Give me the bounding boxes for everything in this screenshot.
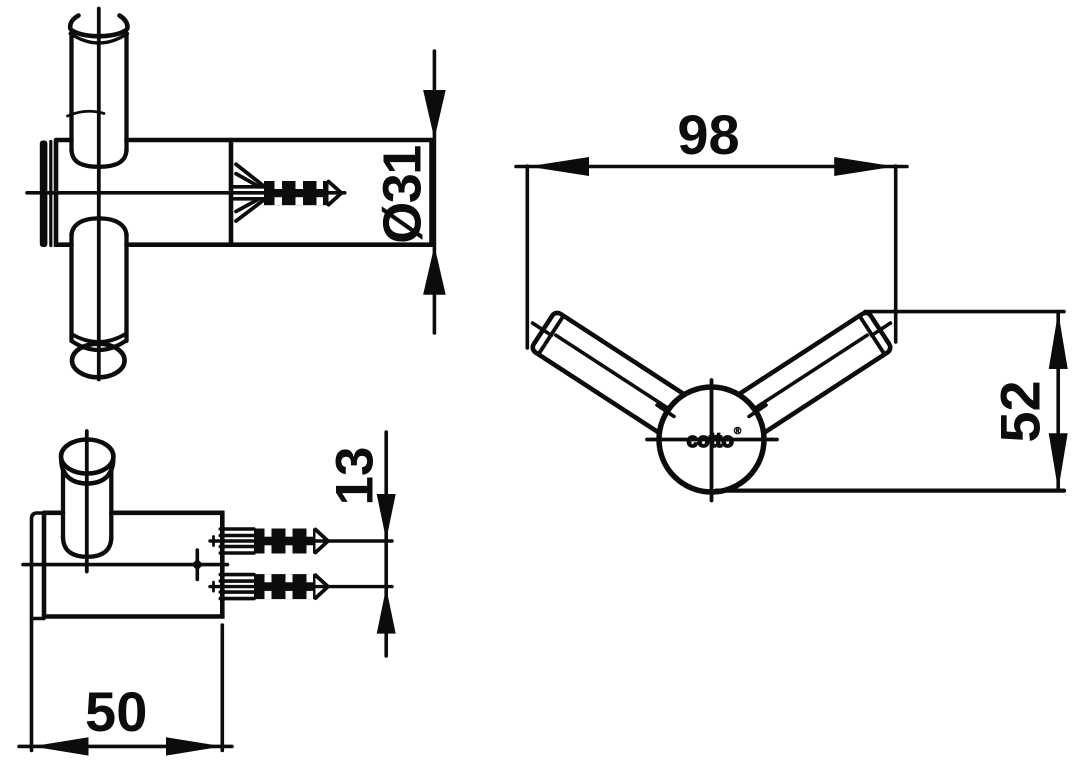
dimension D3 arrowhead right — [166, 737, 223, 755]
dimension D4 left extension — [525, 166, 529, 348]
vertical center line — [85, 431, 89, 572]
bottom hook post sides — [72, 234, 127, 341]
left axis tick on rim — [657, 405, 674, 417]
dimension D1 arrowhead bottom — [423, 246, 446, 295]
hook post top cap — [61, 440, 113, 474]
dimension D5 top extension — [865, 310, 1064, 314]
dimension D5 arrowhead top — [1049, 312, 1068, 369]
screw S1 cone tip — [329, 182, 342, 205]
wall rosette circle — [659, 387, 764, 492]
left hook arm — [520, 304, 732, 464]
hook post bottom arc — [63, 537, 111, 557]
body outline — [56, 140, 432, 245]
svg-text:13: 13 — [326, 447, 385, 506]
dimension D4 arrowhead right — [834, 157, 895, 176]
top post root fillet — [72, 149, 127, 167]
hook post cap rim — [61, 461, 113, 484]
screw S1 countersunk head chevrons — [236, 164, 265, 221]
flange bottom stub — [32, 617, 45, 621]
dimension D4 right extension — [894, 166, 898, 342]
screw S2 plug lines — [220, 529, 254, 553]
top hook post sides — [72, 33, 127, 151]
vertical center line — [97, 9, 101, 380]
bottom post end cap ellipse — [72, 344, 125, 378]
horizontal center line — [23, 563, 228, 567]
hook post sides — [63, 463, 111, 539]
center mark tick — [196, 550, 200, 580]
dimension D5 line (52) — [1056, 312, 1060, 491]
screw S3 center line — [210, 585, 392, 588]
dimension D2 line (13) — [384, 432, 388, 656]
dimension D1 arrowhead top — [423, 90, 446, 139]
svg-text:52: 52 — [989, 380, 1052, 442]
flange edge line — [49, 142, 52, 246]
rosette vertical center line — [710, 380, 714, 501]
body inner divider — [229, 140, 234, 245]
svg-text:50: 50 — [85, 680, 147, 743]
dimension D3 arrowhead left — [32, 737, 89, 755]
svg-text:Ø31: Ø31 — [372, 146, 432, 244]
dimension D1 line (diameter 31) — [433, 51, 437, 333]
screw S3 cone tip — [316, 575, 329, 598]
bottom post root fillet — [72, 218, 127, 236]
right axis tick on rim — [749, 405, 766, 417]
dimension D4 arrowhead left — [528, 157, 589, 176]
dimension D5 arrowhead bottom — [1049, 433, 1068, 490]
screw S1 shank lines — [234, 187, 265, 199]
svg-text:98: 98 — [677, 103, 739, 166]
dimension D5 bottom extension — [716, 488, 1064, 492]
screw S1 thread — [264, 181, 329, 205]
screw S2 thread — [254, 529, 316, 554]
svg-text:®: ® — [734, 426, 742, 437]
flange edge — [32, 513, 45, 751]
top post bend line — [68, 111, 105, 116]
right hook arm — [691, 304, 903, 464]
dimension D3 line (50) — [19, 745, 232, 749]
screw S3 thread — [254, 574, 316, 599]
wall flange bar — [40, 141, 48, 248]
svg-text:cotto: cotto — [687, 430, 734, 452]
dimension D4 line (98) — [516, 165, 907, 169]
rosette horizontal center line — [647, 438, 777, 442]
screw S3 tick — [212, 582, 215, 591]
center mark diamond — [191, 559, 203, 571]
dimension D3 right extension — [221, 625, 225, 751]
screw S2 cone tip — [316, 530, 329, 553]
bottom post cap rim — [72, 334, 126, 342]
dimension D2 arrowhead bottom — [377, 588, 396, 634]
top post cap horseshoe — [70, 16, 127, 37]
screw S2 center line — [210, 539, 392, 542]
screw S3 plug lines — [220, 575, 254, 599]
bottom post cap rim 2 — [72, 341, 126, 350]
dimension D2 arrowhead top — [377, 494, 396, 540]
top post cap rim — [70, 34, 127, 44]
body outline — [44, 513, 222, 617]
screw S2 tick — [212, 537, 215, 546]
horizontal center line — [27, 191, 345, 195]
